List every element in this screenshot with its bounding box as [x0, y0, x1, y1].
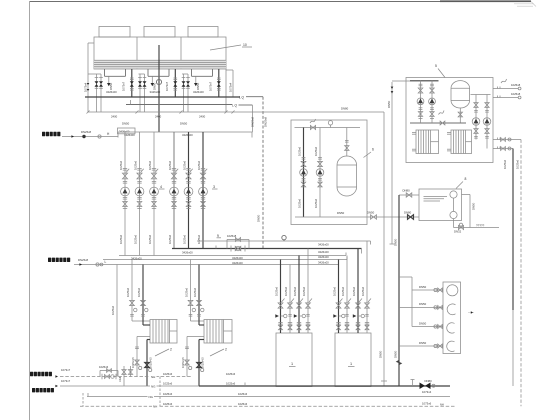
box5 right column 2 [486, 95, 488, 149]
svg-text:1025x6: 1025x6 [185, 287, 189, 297]
svg-text:1025x6: 1025x6 [332, 286, 336, 296]
bypass 9 loop [226, 240, 228, 249]
svg-text:DN80: DN80 [404, 210, 412, 214]
tank8 level lines [424, 196, 448, 198]
svg-text:1025x6: 1025x6 [99, 365, 109, 369]
svg-text:1025x6: 1025x6 [293, 286, 297, 296]
hx unit 2 body [204, 320, 232, 344]
line DN50 box6 to tank8 [295, 216, 419, 218]
svg-text:DN50: DN50 [180, 122, 188, 126]
svg-text:2400: 2400 [155, 114, 162, 118]
svg-text:5: 5 [435, 64, 437, 68]
short drop b [130, 366, 132, 377]
hx2 riser a valve [188, 300, 193, 305]
svg-text:1025x8: 1025x8 [227, 234, 237, 238]
svg-text:?????: ????? [476, 224, 485, 228]
header Hb [172, 248, 362, 250]
entry4 arrow [55, 385, 58, 388]
entry label cooling return [48, 258, 51, 262]
entry2 line [74, 264, 96, 266]
bypass 9 main valve [230, 246, 232, 252]
hx2 drop b sym [197, 363, 202, 368]
svg-text:1025x6: 1025x6 [137, 287, 141, 297]
svg-text:9: 9 [217, 234, 219, 238]
hx1 riser a [131, 260, 133, 322]
svg-text:1025x6: 1025x6 [238, 392, 248, 396]
svg-text:L: L [105, 260, 107, 264]
svg-text:NG: NG [151, 384, 156, 388]
tower left pipe [87, 43, 89, 112]
entry label laundry condensate [32, 388, 35, 392]
svg-text:DN32: DN32 [454, 229, 462, 233]
svg-text:1025x6: 1025x6 [284, 286, 288, 296]
box5 HX2 [451, 130, 472, 154]
collector circle 2 [447, 304, 455, 315]
entry2 fitting b [100, 263, 103, 266]
left bypass loop [99, 371, 101, 377]
chiller riser 2 [289, 265, 291, 334]
chiller riser 2 valve [288, 303, 293, 308]
svg-text:1025x6: 1025x6 [352, 286, 356, 296]
dashed vert x160 [159, 377, 161, 407]
svg-text:NH: NH [153, 405, 157, 409]
svg-text:1025x6: 1025x6 [119, 160, 123, 170]
mark near collector [468, 312, 474, 314]
box5 pump 1 [417, 98, 424, 105]
box5 right pump 2 [483, 118, 491, 126]
svg-text:1025x6: 1025x6 [341, 286, 345, 296]
bypass tick [215, 246, 217, 249]
tower section 1 drop pair [88, 73, 101, 75]
pump column 6 check valve [201, 197, 205, 199]
tower section 3 equalizer [191, 69, 193, 76]
vertical pipe x384 [383, 112, 385, 386]
cooling tower fan box 3 [188, 27, 218, 38]
svg-text:1025x6: 1025x6 [226, 382, 236, 386]
svg-text:DN25x8: DN25x8 [264, 116, 268, 127]
svg-text:1025x6: 1025x6 [197, 234, 201, 244]
chiller riser 1 [280, 260, 282, 334]
right solid drop dark [512, 149, 514, 311]
hx unit 2 label [210, 349, 224, 356]
svg-text:1025x6: 1025x6 [197, 160, 201, 170]
tower section 2 drain funnel [151, 76, 153, 83]
svg-text:4: 4 [160, 185, 162, 189]
svg-text:DN50: DN50 [394, 350, 398, 358]
chiller 1 body [276, 333, 312, 387]
tank8 right pipe [469, 195, 471, 228]
tower basin band [94, 61, 226, 69]
svg-text:1025x6: 1025x6 [361, 286, 365, 296]
riser x263 [262, 97, 264, 249]
entry3 arrow [55, 375, 58, 378]
tower return header [85, 96, 240, 98]
box6 pump 2 [316, 169, 324, 177]
svg-text:DN50: DN50 [337, 211, 345, 215]
HX2 stub b [447, 148, 451, 150]
hx2 riser a [190, 260, 192, 322]
pump P6 [199, 187, 208, 196]
svg-text:DN50: DN50 [472, 202, 476, 210]
chiller riser 7 valve [356, 303, 361, 308]
svg-text:1025x6: 1025x6 [168, 234, 172, 244]
svg-text:3426x00: 3426x00 [318, 261, 329, 265]
box 6 outline [291, 120, 367, 225]
chiller riser 3 valve [297, 303, 302, 308]
collector stub 1 [412, 289, 443, 291]
svg-text:DN50: DN50 [419, 285, 427, 289]
hx unit 1 label [155, 349, 169, 356]
HX2 stub a [447, 132, 451, 134]
svg-text:DN50: DN50 [419, 341, 427, 345]
svg-text:1073x4: 1073x4 [84, 82, 88, 92]
pump column 6 pipe [202, 132, 204, 249]
svg-text:1025x6: 1025x6 [168, 160, 172, 170]
pump column 5 pipe [188, 132, 190, 249]
hx2 drop a [187, 336, 204, 338]
collector circle 3 [447, 323, 455, 333]
box5 tank [451, 81, 470, 108]
box5 inner feed [410, 80, 439, 82]
hx2 riser b [198, 265, 200, 326]
pump column 1 valve [123, 168, 127, 170]
svg-text:1025x6: 1025x6 [274, 286, 278, 296]
tower section 3 drop pair [182, 73, 188, 75]
svg-text:DN50: DN50 [367, 210, 375, 214]
vertical pipe x392 [391, 82, 393, 244]
svg-text:DN80: DN80 [403, 188, 411, 192]
box5 right pump 1 [472, 118, 480, 126]
tower section 2 drop pair [139, 73, 145, 75]
hx1 riser b valve [141, 300, 146, 305]
entry1 line [62, 136, 118, 138]
svg-text:2400: 2400 [111, 114, 118, 118]
svg-text:1025x6: 1025x6 [238, 402, 248, 406]
black valve DN80 [420, 383, 426, 390]
svg-text:3426x00: 3426x00 [318, 242, 329, 246]
chiller riser 8 valve [365, 303, 370, 308]
svg-text:1025x6: 1025x6 [314, 146, 318, 156]
center pipe valve [156, 79, 161, 84]
svg-text:1025x6: 1025x6 [314, 198, 318, 208]
tower right guide [225, 69, 227, 112]
svg-text:1025x6: 1025x6 [183, 234, 187, 244]
pump P4 [170, 187, 179, 196]
left bypass main valve [101, 374, 103, 379]
tower section 2 outlet pipe [174, 69, 176, 97]
svg-text:1025x6: 1025x6 [134, 234, 138, 244]
svg-text:NH: NH [440, 403, 444, 407]
svg-text:1025x6: 1025x6 [148, 160, 152, 170]
header Hc [119, 255, 346, 257]
svg-text:1025x6: 1025x6 [163, 402, 173, 406]
valve DN50 line217 [371, 215, 377, 220]
collector tank [443, 282, 461, 354]
pump P3 [150, 187, 159, 196]
box5 right column 1 [475, 95, 477, 140]
box5 exit stub c [493, 139, 521, 141]
hx2 drop a sym [185, 346, 189, 348]
svg-text:1025x6: 1025x6 [126, 287, 130, 297]
main top line DN80 [233, 111, 384, 113]
tank 8 outline [419, 189, 462, 221]
drain tick [412, 380, 414, 387]
frame top border [30, 1, 532, 3]
cooling tower block body [94, 37, 226, 69]
box5 exit squiggle [501, 79, 507, 83]
svg-text:2: 2 [225, 348, 227, 352]
label NH 2 [152, 404, 159, 408]
svg-text:1025x6: 1025x6 [297, 198, 301, 208]
HX1 stub b [412, 148, 416, 150]
svg-text:3426x00: 3426x00 [318, 250, 329, 254]
svg-text:1: 1 [350, 362, 352, 366]
pump column 3 valve [152, 168, 156, 170]
line NH2 dashed [80, 405, 455, 407]
tower center supply pipe [158, 45, 160, 132]
entry1 fitting b [98, 135, 101, 138]
pump P5 [184, 187, 193, 196]
svg-text:1025x6: 1025x6 [111, 305, 115, 315]
box5 left link [392, 80, 410, 82]
svg-text:1025x6: 1025x6 [163, 382, 173, 386]
line NH1 dashed [60, 376, 192, 378]
svg-text:10x6: 10x6 [119, 376, 122, 382]
svg-text:1073x7: 1073x7 [61, 379, 71, 383]
flow arrows x392 [391, 87, 394, 89]
hx1 riser a valve [130, 300, 135, 305]
svg-text:1025x6: 1025x6 [163, 392, 173, 396]
box6 control valve [310, 119, 316, 123]
expansion loop x399 [397, 361, 401, 365]
svg-text:DN50: DN50 [152, 82, 156, 90]
chiller riser 6 [346, 256, 348, 334]
svg-text:DN50: DN50 [109, 82, 113, 90]
svg-text:DN80: DN80 [425, 379, 433, 383]
left bypass top valve [107, 369, 112, 373]
chiller riser 4 valve [306, 303, 311, 308]
svg-text:1025x6: 1025x6 [226, 372, 236, 376]
pump column 2 check valve [137, 197, 141, 199]
link 2 [239, 104, 253, 106]
overflow line [454, 227, 500, 229]
line NG1 light [60, 385, 199, 387]
svg-text:DN50: DN50 [379, 350, 383, 358]
svg-text:DN25x8: DN25x8 [78, 258, 89, 262]
svg-text:DN50: DN50 [122, 122, 130, 126]
tank8 bottom fitting [450, 211, 457, 218]
svg-text:1025x4.5: 1025x4.5 [201, 357, 205, 368]
box6 tank stem [346, 128, 348, 157]
right solid drop light [512, 310, 514, 386]
pump column 6 valve [201, 168, 205, 170]
svg-text:1073x7: 1073x7 [165, 81, 169, 91]
hx1 drop b sym [145, 363, 150, 368]
svg-text:1025x6: 1025x6 [163, 372, 173, 376]
svg-text:DN50: DN50 [394, 238, 398, 246]
box5 tank stem [459, 108, 461, 123]
tower section 1 outlet pipe [131, 69, 133, 97]
svg-text:1025x4.5: 1025x4.5 [131, 357, 135, 368]
label NG 2 [148, 394, 155, 398]
entry label tap water [42, 132, 45, 136]
entry2 fitting a [96, 263, 99, 266]
svg-text:L Q: L Q [232, 104, 238, 108]
hx2 riser b valve [197, 300, 202, 305]
cooling tower fan box 2 [144, 27, 175, 38]
line NG1 dark [199, 385, 450, 387]
dashed stub x83 [82, 393, 84, 406]
pump P1 [121, 187, 130, 196]
stub DN80 tank8 [399, 194, 419, 196]
box6 pump column 1 [303, 128, 305, 218]
tank8 top fitting [450, 191, 457, 198]
pump header bracket [118, 131, 252, 133]
svg-text:3426x00: 3426x00 [124, 133, 135, 137]
svg-text:L Q: L Q [239, 95, 245, 99]
bypass 9 top valve [235, 238, 240, 242]
pump column 5 valve [186, 168, 190, 170]
tower section 1 drain funnel [108, 76, 110, 83]
HX1 stub a [412, 132, 416, 134]
svg-text:1073x7: 1073x7 [122, 81, 126, 91]
chiller riser 8 [366, 241, 368, 333]
box6 top line [295, 127, 361, 129]
pump column 3 pipe [153, 132, 155, 256]
header He [96, 264, 338, 266]
svg-text:DN50: DN50 [196, 82, 200, 90]
chiller riser 3 [298, 256, 300, 334]
right dashed drop [520, 140, 522, 407]
pump column 4 valve [172, 168, 176, 170]
box5 pump 2 [429, 98, 436, 105]
pump column 1 check valve [123, 197, 127, 199]
svg-text:1025x8: 1025x8 [511, 83, 521, 87]
svg-text:1073x4: 1073x4 [229, 82, 233, 92]
svg-text:1025x6: 1025x6 [183, 160, 187, 170]
pump column 4 pipe [173, 132, 175, 249]
svg-text:2: 2 [170, 348, 172, 352]
svg-text:2400: 2400 [199, 114, 206, 118]
svg-text:3426x00: 3426x00 [318, 255, 329, 259]
box5 header [410, 122, 466, 124]
svg-text:DN25x8: DN25x8 [81, 130, 92, 134]
box5 pump column 1 [420, 81, 422, 123]
header Hd [103, 259, 347, 261]
svg-text:3426x00: 3426x00 [106, 90, 117, 94]
box5 exit stub d [493, 148, 513, 150]
svg-text:3426x00: 3426x00 [182, 250, 193, 254]
box 5 outline [406, 78, 493, 163]
tower divider 1 [136, 37, 138, 69]
pump column 5 check valve [186, 197, 190, 199]
svg-text:1073x7: 1073x7 [209, 81, 213, 91]
box6 gauge [328, 121, 332, 125]
air vent on Ha [282, 235, 286, 239]
entry1 fitting a [82, 135, 85, 138]
pump column 4 check valve [172, 197, 176, 199]
collector feed corner [399, 276, 412, 278]
svg-text:1025x6: 1025x6 [193, 287, 197, 297]
pump column 3 check valve [152, 197, 156, 199]
svg-text:3426x00: 3426x00 [131, 256, 142, 260]
svg-text:1025x6: 1025x6 [134, 160, 138, 170]
pump P2 [135, 187, 144, 196]
line NG2 [87, 396, 450, 398]
hx1 drop b [147, 339, 150, 341]
left drop x117 [116, 265, 118, 377]
svg-text:6: 6 [372, 148, 374, 152]
svg-text:DN50: DN50 [257, 214, 261, 222]
pump column 2 pipe [139, 132, 141, 256]
box5 pump column 2 [431, 81, 433, 123]
box5 HX1 [416, 130, 439, 154]
chiller riser 4 [307, 249, 309, 334]
vertical pipe x399 [398, 195, 400, 386]
svg-text:3: 3 [213, 185, 215, 189]
entry1 arrow [71, 135, 74, 138]
svg-text:3426x00: 3426x00 [182, 133, 193, 137]
collector stub 3 [412, 326, 443, 328]
cooling tower fan box 1 [99, 27, 130, 38]
box5 exit 1025x8 a [493, 88, 518, 90]
short drop a [123, 366, 125, 386]
svg-text:1025x4.5: 1025x4.5 [149, 357, 153, 368]
svg-text:1025x6: 1025x6 [516, 159, 520, 169]
svg-text:1073x6: 1073x6 [422, 401, 432, 405]
collector stub 2 [399, 306, 443, 308]
tower section 1 equalizer [104, 69, 106, 76]
chiller riser 1 valve [278, 303, 283, 308]
frame top marks [514, 3, 534, 5]
box5 control valve [439, 111, 445, 115]
svg-text:1025x8: 1025x8 [511, 92, 521, 96]
hx unit 1 body [150, 320, 177, 344]
box5 right tie [471, 94, 491, 96]
svg-text:1073x7: 1073x7 [61, 368, 71, 372]
tower header 2 [126, 104, 232, 106]
svg-text:3426x00: 3426x00 [193, 90, 204, 94]
collector circle 1 [447, 285, 458, 296]
svg-text:1025x6: 1025x6 [503, 159, 507, 169]
hx1 drop a sym [135, 346, 139, 348]
header Ha [197, 240, 371, 242]
svg-text:1025x6: 1025x6 [119, 234, 123, 244]
hx2 drop b [199, 339, 204, 341]
chiller riser 5 valve [336, 303, 341, 308]
valve DN80 line217 [408, 215, 414, 220]
pump column 2 valve [137, 168, 141, 170]
label NH 1 [150, 374, 157, 378]
svg-text:3426x00: 3426x00 [232, 261, 243, 265]
svg-text:1025x4.5: 1025x4.5 [181, 357, 185, 368]
collector circle 4 [447, 341, 455, 351]
svg-text:1025x6: 1025x6 [302, 286, 306, 296]
chiller 2 body [335, 333, 371, 387]
svg-text:DN80: DN80 [341, 106, 349, 110]
svg-text:DN50: DN50 [419, 321, 427, 325]
svg-text:3426x00: 3426x00 [232, 256, 243, 260]
svg-text:1: 1 [291, 362, 293, 366]
svg-text:1025x6: 1025x6 [148, 234, 152, 244]
tower divider 2 [180, 37, 182, 69]
tower section 3 outlet pipe [218, 69, 220, 97]
box6 tank [337, 156, 357, 196]
frame left border [29, 2, 31, 420]
box6 pump 1 [300, 169, 308, 177]
svg-text:3426x00: 3426x00 [150, 90, 161, 94]
label 10 leader [210, 45, 241, 50]
